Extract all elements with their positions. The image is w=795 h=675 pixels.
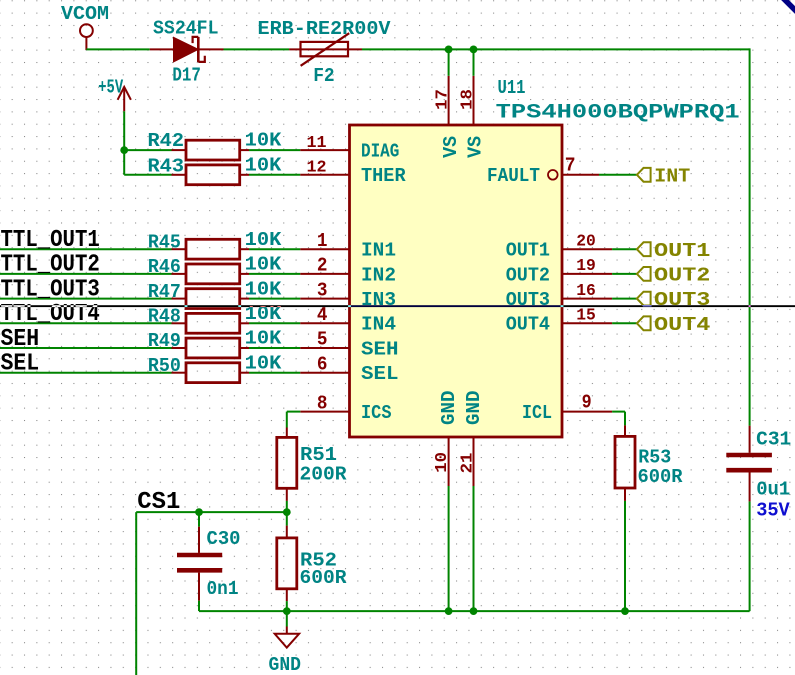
wire SEH [0,347,172,349]
pin 21 GND [459,390,485,486]
junction R52 bottom [283,607,291,615]
hier label OUT4 [637,314,711,336]
svg-text:VCOM: VCOM [61,3,109,25]
resistor R42 [148,130,282,161]
wire pin-OUT4 [612,322,637,324]
svg-text:600R: 600R [638,466,683,488]
svg-text:7: 7 [565,155,576,177]
pin 15 OUT4 [506,307,612,336]
svg-text:R48: R48 [148,306,181,328]
wire pin10-rail [448,486,450,611]
svg-text:ERB-RE2R00V: ERB-RE2R00V [258,18,391,40]
resistor R48 [148,303,282,333]
wire TTL_OUT1 [0,248,172,250]
op-amp U11 body [350,77,740,437]
svg-text:INT: INT [654,165,690,187]
pin 4 IN4 [300,304,396,336]
wire pin-OUT1 [612,248,637,250]
resistor R51 [277,428,347,501]
svg-text:OUT3: OUT3 [506,289,550,311]
pin 8 ICS [300,392,392,424]
svg-text:6: 6 [317,353,328,375]
pin 9 ICL [522,391,612,424]
svg-text:0u1: 0u1 [756,478,790,500]
junction R52 [283,508,291,516]
pin 10 GND [433,391,460,487]
junction C30 [195,508,203,516]
wire SEL [0,372,172,374]
pin 12 THER [300,159,406,188]
svg-text:OUT2: OUT2 [654,265,710,287]
wire R43 feed [124,150,171,175]
wire TTL_OUT4 [0,322,172,324]
wire R51-CS1 [286,501,288,512]
svg-text:10K: 10K [245,328,282,350]
junction R53 bottom [621,607,629,615]
svg-text:2: 2 [317,255,328,277]
svg-text:VS: VS [465,136,487,158]
local label SEH [1,326,40,353]
local label TTL_OUT1 [1,227,100,254]
svg-text:200R: 200R [300,463,347,485]
svg-text:IN3: IN3 [361,289,396,311]
svg-text:19: 19 [576,257,596,276]
wire pin-OUT3 [612,298,637,300]
pin 6 SEL [300,353,398,385]
wire R46-IC [249,273,300,275]
wire R42-pin11 [249,149,300,151]
svg-text:IN4: IN4 [361,314,396,336]
wire D17-F2 [224,48,290,50]
svg-text:10K: 10K [245,352,282,374]
svg-text:10K: 10K [245,229,282,251]
wire +5V stem [123,111,125,150]
svg-text:TTL_OUT4: TTL_OUT4 [1,301,100,328]
wire R48-IC [249,322,300,324]
power port VCOM [61,3,109,50]
wire R50-IC [249,372,300,374]
local label TTL_OUT4 [1,301,100,328]
svg-text:12: 12 [307,159,327,178]
pin 3 IN3 [300,279,396,311]
svg-text:+5V: +5V [98,76,123,98]
svg-text:20: 20 [576,232,596,251]
wire TTL_OUT3 [0,298,172,300]
wire R49-IC [249,347,300,349]
svg-text:4: 4 [317,304,328,326]
svg-text:IN2: IN2 [361,264,396,286]
svg-text:9: 9 [582,391,592,413]
resistor R52 [277,512,347,601]
svg-text:C31: C31 [756,428,791,450]
diode D17 [150,18,224,87]
wire R53-rail [624,501,626,611]
svg-text:ICS: ICS [361,402,392,424]
wire TTL_OUT2 [0,273,172,275]
pin 18 VS [458,76,486,158]
cursor crosshair [0,305,795,307]
pin 2 IN2 [300,255,396,287]
wire R45-IC [249,248,300,250]
pin 19 OUT2 [506,257,612,286]
wire C30-rail [198,601,200,611]
pin 16 OUT3 [506,282,612,311]
svg-text:DIAG: DIAG [361,141,399,163]
bus [783,0,795,13]
resistor R43 [148,154,282,184]
svg-text:8: 8 [317,392,328,414]
wire R47-IC [249,298,300,300]
svg-text:C30: C30 [207,528,241,550]
wire pin8 [287,412,301,428]
svg-text:TTL_OUT2: TTL_OUT2 [1,252,100,279]
wire VCOM-D17 [86,48,149,50]
svg-text:GND: GND [438,391,460,426]
svg-text:R45: R45 [148,231,181,253]
svg-text:18: 18 [458,89,477,110]
wire right rail [749,48,751,425]
svg-text:10K: 10K [245,254,282,276]
hier label OUT1 [637,240,711,262]
svg-text:16: 16 [576,282,596,301]
svg-text:R49: R49 [148,330,181,352]
svg-text:10K: 10K [245,154,282,176]
svg-text:R42: R42 [148,130,185,152]
svg-text:SEH: SEH [1,326,40,353]
pin 11 DIAG [300,134,399,163]
svg-text:TTL_OUT3: TTL_OUT3 [1,276,100,303]
hier label INT [599,165,691,187]
svg-text:R50: R50 [148,355,181,377]
wire pin21-rail [473,486,475,611]
svg-text:ICL: ICL [522,402,552,424]
junction pin10 bottom [445,607,453,615]
svg-text:OUT1: OUT1 [654,240,710,262]
svg-text:F2: F2 [313,65,335,87]
svg-text:21: 21 [459,453,478,474]
wire CS1 drop [135,512,137,675]
svg-text:15: 15 [576,307,596,326]
svg-text:1: 1 [317,230,328,252]
hier label OUT3 [637,289,711,311]
wire pin-OUT2 [612,273,637,275]
svg-text:3: 3 [317,279,328,301]
local label SEL [1,351,40,378]
svg-text:OUT3: OUT3 [654,289,710,311]
pin 5 SEH [300,329,398,361]
local label TTL_OUT2 [1,252,100,279]
svg-text:TPS4H000BQPWPRQ1: TPS4H000BQPWPRQ1 [496,101,740,124]
svg-text:OUT1: OUT1 [506,240,550,262]
svg-text:OUT2: OUT2 [506,264,550,286]
svg-text:GND: GND [269,654,302,675]
pin 20 OUT1 [506,232,612,261]
svg-text:OUT4: OUT4 [654,314,711,336]
svg-text:R43: R43 [148,156,185,178]
svg-text:5: 5 [317,329,328,351]
svg-text:SS24FL: SS24FL [153,18,219,40]
wire F2-rail [362,48,750,50]
wire VS1 [448,49,450,75]
svg-text:10K: 10K [245,130,282,152]
local label TTL_OUT3 [1,276,100,303]
fuse F2 [258,18,391,87]
resistor R49 [148,328,282,358]
svg-text:R53: R53 [638,446,671,468]
pin 7 FAULT [487,155,599,188]
svg-text:10: 10 [433,452,452,473]
capacitor C31 [726,426,791,522]
pin 17 VS [433,76,461,158]
svg-text:THER: THER [361,165,406,187]
svg-text:TTL_OUT1: TTL_OUT1 [1,227,100,254]
svg-text:VS: VS [440,136,462,158]
power symbol +5V [98,76,131,111]
svg-text:GND: GND [463,390,485,425]
wire R42 feed [124,149,171,151]
svg-text:11: 11 [307,134,327,153]
wire R43-pin12 [249,174,300,176]
svg-text:SEL: SEL [1,351,40,378]
wire pin9 [612,412,625,426]
wire VS2 [473,49,475,75]
svg-text:10K: 10K [245,278,282,300]
hier label OUT2 [637,265,711,287]
ground [269,611,302,675]
svg-text:0n1: 0n1 [207,578,239,600]
junction VS1 [445,46,453,54]
resistor R46 [148,254,282,284]
resistor R50 [148,352,282,382]
resistor R53 [615,425,683,501]
svg-text:R46: R46 [148,256,181,278]
local label CS1 [137,489,180,516]
svg-text:OUT4: OUT4 [506,314,551,336]
wire CS1 row [136,511,287,513]
svg-text:SEL: SEL [361,363,399,385]
svg-text:IN1: IN1 [361,240,396,262]
junction pin21 bottom [470,607,478,615]
svg-text:35V: 35V [756,499,790,521]
resistor R45 [148,229,282,259]
pin 1 IN1 [300,230,396,262]
wire bottom rail [199,501,750,611]
svg-text:600R: 600R [300,567,347,589]
svg-text:U11: U11 [498,77,526,99]
svg-text:17: 17 [433,89,452,110]
svg-text:D17: D17 [172,65,201,87]
svg-text:R47: R47 [148,281,181,303]
junction VS2 [470,46,478,54]
junction R42 [120,146,128,154]
svg-text:FAULT: FAULT [487,165,540,187]
capacitor C30 [177,512,241,601]
svg-text:SEH: SEH [361,338,399,360]
resistor R47 [148,278,282,308]
wire R52-rail [286,601,288,611]
